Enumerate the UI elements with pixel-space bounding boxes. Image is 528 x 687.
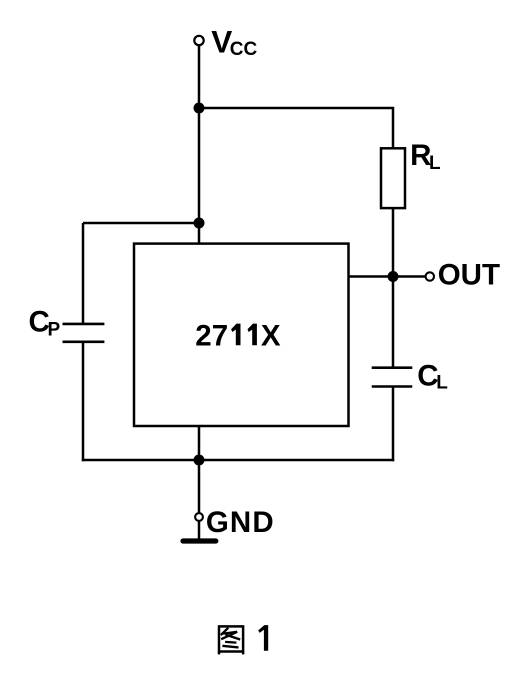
terminal GND (open circle) [195,513,203,521]
wire: CP branch vertical upper [82,223,85,324]
capacitor CP [63,324,105,342]
wire: VCC terminal down to IC top [198,45,201,244]
terminal VCC (open circle) [194,36,203,45]
resistor RL [381,148,405,208]
svg-text:P: P [48,320,61,341]
label VCC [211,23,257,60]
wire: top horizontal to RL branch [199,108,393,149]
wire: CL bottom down to ground bus [392,387,395,462]
node junction at OUT [388,271,399,282]
label RL [410,139,441,174]
node junction at CP branch [194,218,205,229]
svg-text:X: X [261,319,281,352]
label CP [29,306,61,341]
caption figure number 1 [258,625,268,651]
svg-text:CC: CC [230,39,258,60]
wire: resistor bottom to OUT node [392,208,395,277]
svg-text:L: L [429,153,441,174]
node junction at VCC rail / RL branch [194,103,205,114]
ground [183,538,216,543]
wire: IC bottom to GND terminal [198,426,201,513]
terminal OUT (open circle) [426,272,434,280]
svg-text:GND: GND [206,506,275,539]
label 2711X [195,319,281,352]
wire: GND terminal to earth bar [198,521,201,539]
capacitor CL [372,368,413,387]
label CL [417,359,448,393]
op-amp U1 box 2711X [134,244,349,426]
svg-text:OUT: OUT [438,259,500,292]
wire: CP branch vertical lower [82,342,85,461]
wire: OUT node down to CL top [392,277,395,368]
svg-text:L: L [436,372,448,393]
caption figure 1 glyph (tu) [219,626,243,654]
wire: CP branch top horizontal [83,222,199,225]
node junction at ground bus [194,455,205,466]
wire: IC output to OUT terminal [349,275,427,278]
svg-text:27: 27 [195,319,228,352]
wire: bottom ground bus [82,459,394,462]
